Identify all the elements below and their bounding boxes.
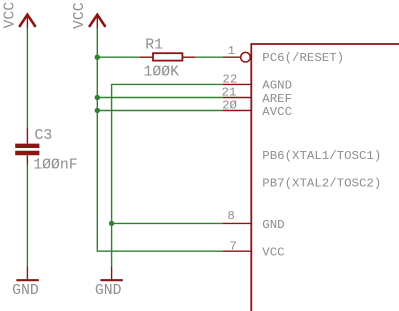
wire GND net to pin 8: [112, 222, 223, 224]
junction rail2/AVCC: [95, 108, 100, 113]
junction rail2/R1: [95, 55, 100, 60]
svg-text:7: 7: [229, 239, 236, 253]
wire AVCC net: [97, 110, 222, 112]
svg-text:VCC: VCC: [2, 2, 18, 29]
svg-text:PB7(XTAL2/TOSC2): PB7(XTAL2/TOSC2): [262, 176, 381, 190]
svg-text:21: 21: [222, 86, 237, 100]
wire AREF net: [97, 97, 222, 99]
svg-text:GND: GND: [95, 283, 122, 299]
svg-text:AVCC: AVCC: [262, 105, 292, 119]
svg-text:AGND: AGND: [262, 79, 292, 93]
svg-text:VCC: VCC: [262, 246, 284, 260]
pin 20 AVCC stub: [223, 110, 251, 112]
svg-text:VCC: VCC: [72, 2, 88, 29]
pin 1 PC6 with inversion bubble: [223, 52, 250, 62]
svg-text:GND: GND: [12, 283, 39, 299]
capacitor C3: [15, 128, 39, 165]
wire R1 to pin 1: [195, 56, 223, 58]
svg-text:PC6(/RESET): PC6(/RESET): [262, 51, 344, 65]
svg-text:1: 1: [228, 44, 235, 58]
junction GND net: [109, 221, 114, 226]
svg-text:1ØØnF: 1ØØnF: [33, 157, 77, 173]
junction rail2/AREF: [95, 95, 100, 100]
pin 22 AGND stub: [223, 83, 251, 85]
ground GND symbol 2: [100, 267, 122, 280]
svg-text:PB6(XTAL1/TOSC1): PB6(XTAL1/TOSC1): [262, 149, 381, 163]
svg-text:1ØØK: 1ØØK: [144, 64, 180, 80]
wire C3 to GND 1: [26, 165, 28, 268]
svg-text:R1: R1: [145, 38, 163, 54]
wire AGND net: [112, 84, 223, 267]
svg-text:22: 22: [222, 73, 237, 87]
svg-text:GND: GND: [262, 218, 284, 232]
wire rail2 to R1: [97, 56, 140, 58]
pin 21 AREF stub: [223, 97, 251, 99]
svg-text:C3: C3: [35, 128, 53, 144]
resistor R1: [140, 53, 195, 60]
IC box outline (U1): [251, 44, 399, 311]
wire VCC rail 2: [97, 28, 222, 251]
svg-text:2Ø: 2Ø: [222, 99, 237, 113]
power VCC symbol 1 (arrow): [20, 15, 35, 29]
power VCC symbol 2 (arrow): [90, 15, 105, 29]
svg-text:AREF: AREF: [262, 92, 292, 106]
pin 8 GND stub: [223, 222, 251, 224]
svg-text:8: 8: [227, 209, 234, 223]
ground GND symbol 1: [16, 267, 38, 280]
wire VCC rail 1: [26, 28, 28, 128]
pin 7 VCC stub: [223, 250, 251, 252]
